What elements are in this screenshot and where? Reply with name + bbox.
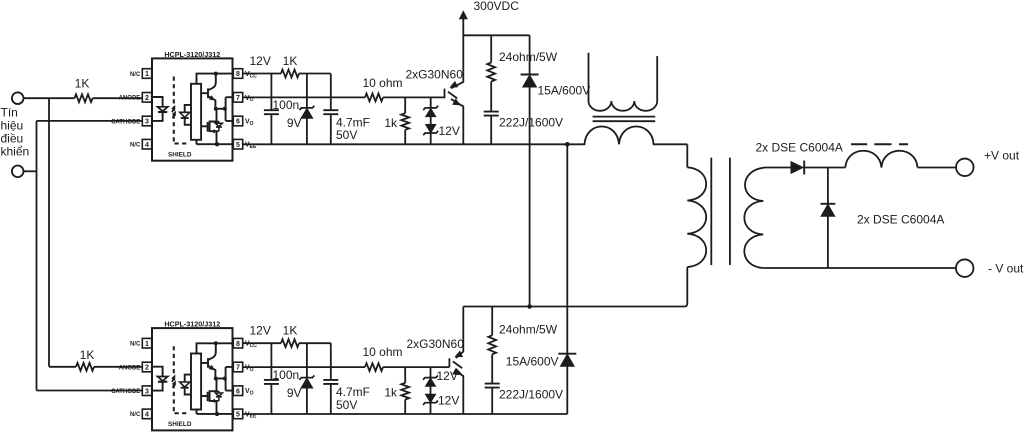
wire anode branch down to R2 xyxy=(48,98,50,367)
wire R2 to U2 anode xyxy=(94,366,142,368)
svg-text:N/C: N/C xyxy=(130,412,141,418)
U1 photodiode xyxy=(180,112,190,117)
resistor R3 1K (top Vcc) xyxy=(281,70,299,78)
wire to R5 xyxy=(404,97,406,113)
svg-text:5: 5 xyxy=(236,412,240,419)
svg-text:222J/1600V: 222J/1600V xyxy=(499,116,563,130)
U1 internal Vcc rail xyxy=(197,74,234,84)
wire secondary bottom to -V out xyxy=(763,267,956,269)
wire to D10a xyxy=(430,367,432,378)
U1 internal LED anode wire xyxy=(152,97,163,107)
U1 pin 8 box xyxy=(233,69,242,79)
wire to D1 xyxy=(306,74,308,108)
output terminal +V out xyxy=(956,159,974,177)
node B junction (primary bottom) xyxy=(527,304,532,309)
input terminal J2 (control signal -) xyxy=(12,166,24,178)
U2 output node junction xyxy=(214,377,218,381)
wire C4 to Vee rail xyxy=(270,384,272,414)
transformer T2 secondary winding xyxy=(744,168,766,269)
svg-text:24ohm/5W: 24ohm/5W xyxy=(499,323,558,337)
svg-text:6: 6 xyxy=(236,119,240,126)
wire U2 Vo to R8 xyxy=(243,366,365,368)
svg-text:12V: 12V xyxy=(438,394,459,408)
U1 pin 5 box xyxy=(233,139,242,149)
svg-text:1k: 1k xyxy=(384,116,398,130)
node A junction (primary top) xyxy=(565,142,570,147)
op-amp U1 HCPL-3120/J312 gate driver body xyxy=(152,58,233,160)
svg-text:2: 2 xyxy=(145,95,149,102)
svg-text:5: 5 xyxy=(236,142,240,149)
svg-text:8: 8 xyxy=(236,71,240,78)
U1 pin 3 box xyxy=(142,116,151,126)
svg-text:8: 8 xyxy=(236,341,240,348)
wire D6 to ground rail xyxy=(566,366,568,414)
svg-text:9V: 9V xyxy=(287,386,302,400)
zener diode D2b 12V (top clamp lower) xyxy=(426,124,436,133)
U2 internal protection diode xyxy=(217,391,219,401)
svg-text:1K: 1K xyxy=(80,348,95,362)
wire to C1 xyxy=(270,74,272,111)
svg-text:ANODE: ANODE xyxy=(119,96,141,102)
wire top emitter rail xyxy=(243,143,568,145)
resistor R4 10 ohm (top gate) xyxy=(365,94,383,102)
U1 pin 6 box xyxy=(233,116,242,126)
transistor Q2 2xG30N60 IGBT (bottom) xyxy=(449,307,463,415)
wire R4 to Q1 gate xyxy=(383,96,445,98)
capacitor C2 4.7mF 50V xyxy=(323,110,338,114)
wire C3 to emitter rail xyxy=(490,116,492,145)
svg-text:1K: 1K xyxy=(283,54,298,68)
svg-text:7: 7 xyxy=(236,95,240,102)
zener diode D9 9V xyxy=(299,375,314,379)
U2 pin 1 box xyxy=(142,338,151,348)
U1 internal shield dashed line xyxy=(174,77,189,144)
wire U2 Vcc to R7 xyxy=(243,342,281,344)
wire U1 Vcc to R3 xyxy=(243,73,281,75)
svg-text:1: 1 xyxy=(145,71,149,78)
wire D7 to L1 xyxy=(804,167,845,169)
U2 internal amplifier block xyxy=(191,354,201,410)
wire D1 to Vee rail xyxy=(306,118,308,144)
wire to R9 xyxy=(404,367,406,383)
svg-text:CATHODE: CATHODE xyxy=(111,119,140,125)
wire R5 to Vee rail xyxy=(404,130,406,145)
U1 output node junction xyxy=(214,107,218,111)
wire C5 to Vee rail xyxy=(330,384,332,414)
wire 300VDC rail xyxy=(463,34,529,36)
wire 300VDC to D5 xyxy=(529,35,531,74)
U2 photodiode wires xyxy=(185,375,192,395)
capacitor C4 100n xyxy=(264,380,279,384)
wire R3 to C2 xyxy=(299,73,331,75)
wire C1 to Vee rail xyxy=(270,114,272,144)
U1 internal amplifier block xyxy=(191,84,201,140)
zener diode D10b 12V (bottom clamp lower) xyxy=(425,394,435,403)
wire R1 to U1 anode xyxy=(93,97,143,99)
wire W2 to primary xyxy=(686,144,688,167)
svg-text:3: 3 xyxy=(145,119,149,126)
U1 internal LED xyxy=(158,107,168,111)
svg-text:2: 2 xyxy=(145,365,149,372)
U2 photodiode xyxy=(180,382,190,387)
wire to C4 xyxy=(270,343,272,380)
zener diode D10a 12V (bottom clamp upper) xyxy=(423,375,438,379)
svg-text:12V: 12V xyxy=(250,324,271,338)
U2 internal LED xyxy=(158,377,168,381)
U2 output pins junction xyxy=(223,377,227,381)
resistor R1 1K (top LED series) xyxy=(75,94,93,102)
svg-text:2x DSE C6004A: 2x DSE C6004A xyxy=(857,213,944,227)
svg-text:4: 4 xyxy=(145,142,149,149)
svg-text:6: 6 xyxy=(236,388,240,395)
wire D10b to Vee rail xyxy=(430,403,432,414)
svg-text:10 ohm: 10 ohm xyxy=(363,345,403,359)
svg-text:1K: 1K xyxy=(75,77,90,91)
inductor L1 output choke xyxy=(845,151,917,168)
svg-text:9V: 9V xyxy=(287,116,302,130)
U1 pin 4 box xyxy=(142,139,151,149)
wire C2 to Vee rail xyxy=(330,114,332,144)
svg-text:12V: 12V xyxy=(250,54,271,68)
input terminal J1 (control signal +) xyxy=(12,92,24,104)
U1 internal Vee rail xyxy=(197,140,234,144)
transistor Q1 2xG30N60 IGBT (top) xyxy=(445,35,464,144)
wire R6 to C3 xyxy=(490,82,492,112)
wire to C5 xyxy=(330,343,332,380)
wire secondary top to D7 xyxy=(766,167,791,169)
resistor R6 24ohm/5W (top snubber) xyxy=(487,63,495,82)
wire to D9 xyxy=(306,343,308,377)
U2 pin 7 box xyxy=(233,362,242,372)
svg-text:+V out: +V out xyxy=(984,149,1020,163)
transformer T2 primary winding xyxy=(687,167,706,267)
supply 300VDC arrow xyxy=(462,19,464,36)
wire node A down to D6 xyxy=(566,144,568,353)
svg-text:12V: 12V xyxy=(439,124,460,138)
U2 internal shield dashed line xyxy=(174,346,189,413)
svg-text:N/C: N/C xyxy=(130,143,141,149)
resistor R9 1k (bottom gate-emitter) xyxy=(401,383,409,400)
svg-text:100n: 100n xyxy=(273,98,300,112)
U2 pin 2 box xyxy=(142,362,151,372)
U2 pin 5 box xyxy=(233,409,242,419)
svg-text:222J/1600V: 222J/1600V xyxy=(499,387,563,401)
svg-text:HCPL-3120/J312: HCPL-3120/J312 xyxy=(164,320,220,329)
U1 output node wire xyxy=(216,108,226,110)
resistor R5 1k (top gate-emitter) xyxy=(401,113,409,130)
wire node B to Q2 collector xyxy=(463,306,529,308)
svg-text:300VDC: 300VDC xyxy=(474,0,520,13)
wire to C2 xyxy=(330,74,332,111)
U2 pin 8 box xyxy=(233,338,242,348)
winding W3 (coupled reset winding) xyxy=(589,53,658,111)
wire node C to D8 xyxy=(827,168,829,204)
wire R9 to Vee rail xyxy=(404,400,406,415)
U1 pin 7 box xyxy=(233,93,242,103)
wire bottom ground rail xyxy=(243,413,568,415)
svg-text:ANODE: ANODE xyxy=(119,365,141,371)
svg-text:N/C: N/C xyxy=(130,342,141,348)
svg-text:HCPL-3120/J312: HCPL-3120/J312 xyxy=(164,50,220,59)
resistor R2 1K (bottom LED series) xyxy=(76,363,94,371)
wire J2 to cathode bus xyxy=(24,170,37,172)
wire primary bottom to node B xyxy=(530,267,688,307)
U2 pin 3 box xyxy=(142,386,151,396)
capacitor C1 100n xyxy=(264,110,279,114)
wire R8 to Q2 gate xyxy=(383,366,449,368)
U1 photodiode wires xyxy=(185,105,192,125)
svg-text:2xG30N60: 2xG30N60 xyxy=(406,68,464,82)
wire D2a to D2b xyxy=(430,117,432,125)
wire node B to R10 xyxy=(491,307,493,336)
U1 pin 2 box xyxy=(142,93,151,103)
U1 internal protection diode xyxy=(217,122,219,132)
U2 internal Vee rail xyxy=(197,410,234,414)
wire D8 to -V rail xyxy=(827,216,829,268)
svg-text:N/C: N/C xyxy=(130,72,141,78)
U1 internal LED cathode wire xyxy=(152,112,163,121)
transformer T1 core xyxy=(593,117,656,122)
diode D7 2x DSE C6004A (series rectifier) xyxy=(791,161,805,174)
svg-text:3: 3 xyxy=(145,388,149,395)
diode D8 2x DSE C6004A (freewheel rectifier) xyxy=(821,203,836,205)
U2 LED light arrows xyxy=(172,379,174,388)
svg-text:1: 1 xyxy=(145,341,149,348)
svg-text:1k: 1k xyxy=(384,386,398,400)
U2 internal NPN transistor Q xyxy=(201,343,216,378)
wire R10 to C6 xyxy=(491,354,493,383)
svg-text:10 ohm: 10 ohm xyxy=(363,76,403,90)
svg-text:CATHODE: CATHODE xyxy=(111,389,140,395)
U2 internal LED cathode wire xyxy=(152,382,163,391)
U2 internal Vcc rail xyxy=(197,343,234,353)
wire cathodes bus xyxy=(37,121,143,391)
wire to R6 xyxy=(490,35,492,62)
U2 internal MOSFET xyxy=(201,379,216,414)
zener diode D2a 12V (top clamp upper) xyxy=(423,106,438,110)
coupling dashes xyxy=(851,143,908,145)
capacitor C6 222J/1600V (bottom snubber) xyxy=(485,384,500,388)
svg-text:4: 4 xyxy=(145,412,149,419)
resistor R10 24ohm/5W (bottom snubber) xyxy=(488,335,496,354)
svg-text:SHIELD: SHIELD xyxy=(168,151,192,158)
svg-text:- V out: - V out xyxy=(988,262,1024,276)
wire D10a to D10b xyxy=(430,386,432,394)
U1 internal NPN transistor Q xyxy=(201,74,216,109)
svg-text:100n: 100n xyxy=(273,368,300,382)
node C junction xyxy=(827,167,829,169)
zener diode D1 9V xyxy=(299,106,314,110)
svg-text:SHIELD: SHIELD xyxy=(168,421,192,428)
svg-text:1K: 1K xyxy=(283,324,298,338)
U2 internal LED anode wire xyxy=(152,367,163,377)
transformer T2 core xyxy=(711,158,730,265)
output terminal -V out xyxy=(956,259,974,277)
wire L1 to +V out xyxy=(918,167,957,169)
svg-text:15A/600V: 15A/600V xyxy=(506,355,559,369)
U1 internal Vcc junction xyxy=(214,72,218,76)
wire C6 to ground rail xyxy=(491,388,493,415)
U1 wires to pins 6 and 7 xyxy=(226,97,234,121)
diode D6 15A/600V (bottom freewheel) xyxy=(558,353,576,355)
U2 wires to pins 6 and 7 xyxy=(226,367,234,391)
svg-text:2x DSE C6004A: 2x DSE C6004A xyxy=(756,141,843,155)
resistor R8 10 ohm (bottom gate) xyxy=(365,363,383,371)
U1 Vee junction xyxy=(215,142,219,146)
wire R7 to C5 xyxy=(299,342,331,344)
wire to D2a xyxy=(430,97,432,108)
U2 internal Vcc junction xyxy=(214,341,218,345)
svg-text:7: 7 xyxy=(236,365,240,372)
svg-text:2xG30N60: 2xG30N60 xyxy=(407,337,465,351)
op-amp U2 HCPL-3120/J312 gate driver body xyxy=(152,328,233,430)
U2 output node wire xyxy=(216,378,226,380)
diode D5 15A/600V (top freewheel) xyxy=(521,74,539,76)
winding W2 (series winding) xyxy=(567,127,687,145)
svg-text:15A/600V: 15A/600V xyxy=(538,84,591,98)
U2 pin 6 box xyxy=(233,386,242,396)
U2 Vee junction xyxy=(215,412,219,416)
U1 internal MOSFET xyxy=(201,109,216,144)
U2 pin 4 box xyxy=(142,409,151,419)
wire D2b to Vee rail xyxy=(430,133,432,144)
wire to R2 xyxy=(49,366,76,368)
U1 pin 1 box xyxy=(142,69,151,79)
wire D9 to Vee rail xyxy=(306,388,308,414)
wire D5 to primary bottom node xyxy=(529,87,531,306)
capacitor C5 4.7mF 50V xyxy=(323,380,338,384)
capacitor C3 222J/1600V (top snubber) xyxy=(484,112,499,116)
U1 LED light arrows xyxy=(172,109,174,118)
svg-text:24ohm/5W: 24ohm/5W xyxy=(499,50,558,64)
resistor R7 1K (bottom Vcc) xyxy=(281,339,299,347)
U1 output pins junction xyxy=(223,107,227,111)
wire U1 Vo to R4 xyxy=(243,96,365,98)
wire J1 to R1 xyxy=(24,97,75,99)
